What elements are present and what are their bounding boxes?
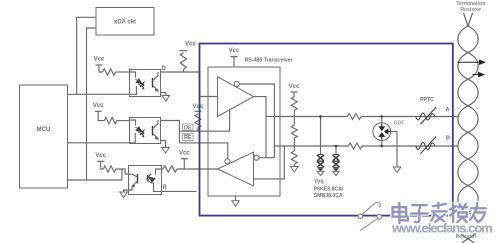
isolation boundary box — [200, 44, 453, 216]
bus continuation arrows — [457, 61, 480, 63]
wire D into driver — [200, 72, 218, 97]
label DE — [183, 124, 194, 131]
driver U4 — [218, 77, 254, 117]
optocoupler U3 — [129, 166, 162, 195]
Vcc row3 — [97, 160, 104, 162]
watermark logo disc — [353, 199, 387, 233]
bus line B — [274, 145, 348, 147]
svg-text:DE: DE — [184, 125, 192, 131]
svg-text:TVS: TVS — [314, 180, 325, 186]
resistor R6 R line — [162, 168, 164, 170]
ground U2 — [162, 148, 169, 154]
Vcc R pull-up — [181, 158, 188, 160]
ground GDT — [393, 167, 401, 173]
ground bias — [291, 167, 299, 173]
svg-text:Vcc: Vcc — [93, 103, 104, 109]
wire receiver inv in — [259, 157, 274, 159]
Vcc bias — [291, 91, 298, 93]
wire driver out — [254, 97, 267, 158]
wire MCU row3 — [68, 169, 122, 180]
resistor R3 — [101, 161, 104, 169]
svg-text:Vcc: Vcc — [193, 104, 204, 110]
GDT G1 — [381, 117, 383, 124]
wire U1 out D — [161, 71, 200, 73]
ground U3 — [120, 192, 128, 198]
resistor R4 D pull-up — [180, 53, 186, 70]
svg-text:RS-485 Transceiver: RS-485 Transceiver — [245, 58, 293, 64]
optocoupler U1 — [130, 70, 161, 97]
wire MCU row1 — [68, 86, 137, 94]
wire U2 out — [161, 121, 180, 143]
resistor R7 — [291, 97, 297, 111]
xDA ckt block — [96, 8, 154, 36]
PPTC F1 — [416, 107, 436, 124]
label RE — [183, 134, 194, 141]
resistor R9 — [293, 146, 295, 151]
ground transceiver — [235, 196, 237, 201]
watermark text — [393, 203, 408, 223]
svg-text:Vcc: Vcc — [94, 57, 105, 63]
wire U2 emitter — [161, 141, 166, 148]
Vcc row1 — [96, 64, 103, 66]
svg-text:Vcc: Vcc — [289, 84, 300, 90]
svg-text:Vcc: Vcc — [229, 48, 240, 54]
wire RE — [179, 143, 227, 164]
resistor R8 — [293, 117, 295, 126]
resistor R1 — [99, 65, 103, 72]
svg-text:A: A — [446, 107, 450, 113]
wire U1 emitter — [161, 92, 166, 95]
resistor R5 DE pull-up — [195, 114, 201, 128]
wire U3 cathode — [162, 190, 197, 192]
series resistor R11 — [349, 143, 363, 149]
svg-text:B: B — [446, 136, 450, 142]
svg-text:P6KE8.8CA/: P6KE8.8CA/ — [314, 187, 344, 193]
Vcc row2 — [95, 110, 102, 112]
TVS D1 — [320, 117, 322, 156]
wire U3 emitter — [124, 190, 129, 192]
Vcc D pull-up — [179, 50, 187, 52]
svg-text:Vcc: Vcc — [185, 42, 196, 48]
svg-text:R: R — [163, 185, 168, 191]
svg-text:Resistor: Resistor — [460, 7, 481, 13]
receiver U5 — [218, 152, 254, 186]
wire MCU row2 — [68, 133, 136, 143]
bus line A — [266, 116, 348, 118]
twisted pair cable — [458, 13, 478, 243]
optocoupler U2 — [130, 118, 161, 144]
Vcc transceiver — [231, 56, 238, 58]
svg-text:www.elecfans.com: www.elecfans.com — [391, 221, 492, 236]
wire DE — [179, 110, 229, 131]
svg-text:Vcc: Vcc — [179, 151, 190, 157]
watermark logo — [362, 202, 380, 214]
wire GDT to ground — [391, 132, 397, 167]
svg-text:PPTC: PPTC — [420, 97, 434, 103]
TVS D2 — [335, 146, 337, 155]
resistor R2 — [98, 111, 104, 120]
wire xDA to row1 — [77, 17, 96, 94]
svg-text:D: D — [162, 66, 167, 72]
svg-text:xDA ckt: xDA ckt — [114, 20, 136, 26]
series resistor R10 — [348, 114, 362, 120]
ground U1 — [162, 96, 170, 102]
MCU block — [20, 85, 68, 188]
svg-text:MCU: MCU — [37, 127, 51, 133]
svg-text:Vcc: Vcc — [95, 153, 106, 159]
svg-text:RE: RE — [184, 135, 192, 141]
PPTC F2 — [416, 137, 436, 154]
wire receiver in — [254, 146, 285, 179]
svg-text:SMBJ8.0CA: SMBJ8.0CA — [314, 193, 343, 199]
Vcc DE pull-up — [194, 110, 201, 112]
svg-text:GDT: GDT — [394, 121, 406, 127]
wire xDA to row3 — [87, 28, 97, 180]
RS-485 transceiver IC box — [208, 67, 280, 196]
wire driver inv out — [239, 84, 274, 158]
